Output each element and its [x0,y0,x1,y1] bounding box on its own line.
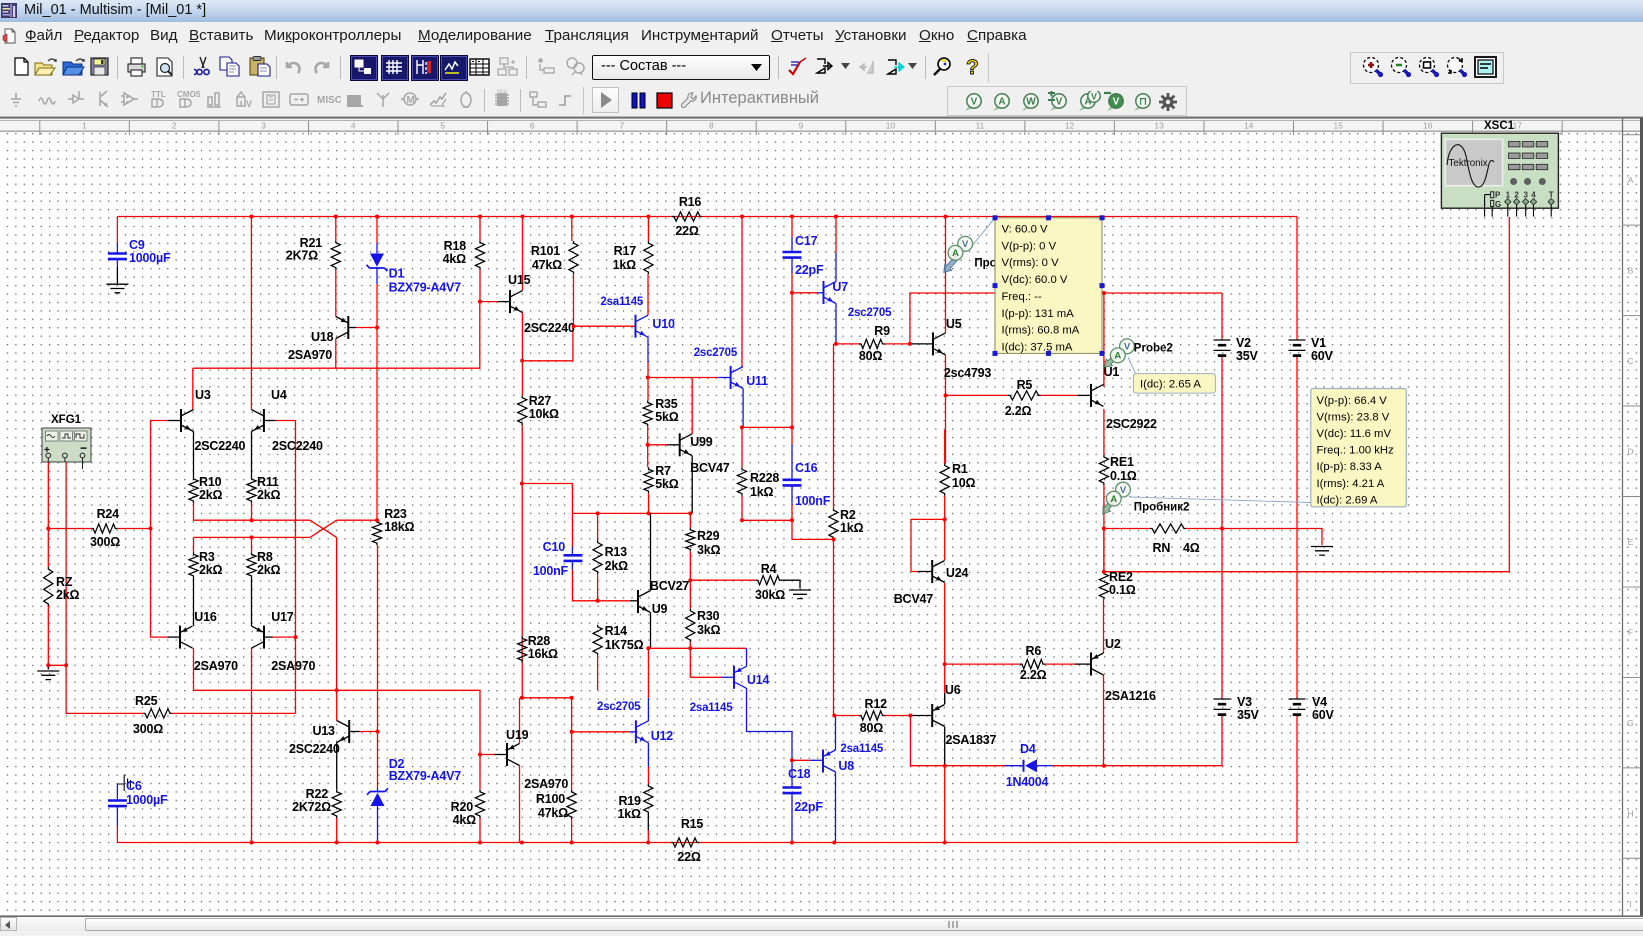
transistor U11 selected [730,366,732,389]
toolbar icon: cut [194,56,212,78]
svg-text:I(p-p): 8.33 A: I(p-p): 8.33 A [1317,461,1383,473]
svg-text:U24: U24 [946,566,969,580]
wire U8 base [792,759,810,761]
wire U16 collector [193,648,195,690]
wire C16 top [791,427,793,445]
toolbar icon: step [556,89,580,113]
wire U18 base [356,327,377,329]
wire U16 base black [168,636,181,638]
svg-text:RZ: RZ [56,575,73,589]
svg-text:3kΩ: 3kΩ [697,543,721,557]
capacitor C10 [564,555,583,561]
svg-text:2kΩ: 2kΩ [199,488,223,502]
svg-text:R9: R9 [874,324,890,338]
transistor U14 selected [733,666,735,689]
wire U18 collector down [335,339,337,369]
toolbar icon: view button [350,55,378,81]
toolbar icon: source group [10,89,34,113]
wire C16 top lead [791,445,793,480]
wire R6 to U2 base [1045,663,1075,665]
toolbar icon: RF group [373,89,397,113]
wire R27 bottom to node [521,425,523,636]
svg-text:Freq.: --: Freq.: -- [1002,291,1042,303]
wire R101 bottom [573,274,575,326]
transistor U24 [931,560,933,583]
resistor R100 [567,790,576,819]
resistor R15 [671,838,699,847]
svg-text:U5: U5 [946,317,962,331]
wire R9 node [836,343,859,345]
svg-text:R5: R5 [1017,378,1033,392]
toolbar icon: zoom out [1390,56,1412,80]
svg-text:22pF: 22pF [795,263,824,277]
svg-text:F: F [1628,627,1633,637]
svg-text:I(rms): 4.21 A: I(rms): 4.21 A [1317,478,1385,490]
svg-text:V: 60.0 V: V: 60.0 V [1002,224,1049,236]
wire U15 collector [522,217,524,291]
transistor U18 [347,316,349,339]
svg-text:0.1Ω: 0.1Ω [1110,469,1137,483]
svg-text:6: 6 [530,120,535,130]
wire C9 bottom lead [116,259,118,267]
svg-text:2kΩ: 2kΩ [257,563,281,577]
wire R17 top [647,217,649,242]
wire U5 base stub [910,343,933,345]
capacitor C17 [783,252,802,258]
wire D4 left lead [1005,765,1024,767]
wire diff pair line lower [194,536,311,538]
svg-text:9: 9 [799,120,804,130]
wire U1 emitter [1103,409,1105,455]
svg-text:C17: C17 [795,234,818,248]
transistor U9 [637,590,639,613]
resistor R28 [518,636,527,662]
svg-text:5: 5 [440,120,445,130]
svg-text:R101: R101 [531,244,560,258]
wire line y=690 [194,690,481,754]
svg-text:U9: U9 [652,602,668,616]
svg-text:2sa1145: 2sa1145 [840,743,884,755]
wire C17 bottom lead [791,258,793,273]
toolbar icon: save [90,57,110,77]
resistor R11 [247,477,256,503]
svg-text:2SA970: 2SA970 [194,659,238,673]
wire emitter node to R101 node [522,326,573,361]
svg-text:R24: R24 [97,507,120,521]
wire U8 base blue [810,759,823,761]
svg-text:10: 10 [886,120,896,130]
svg-text:BZX79-A4V7: BZX79-A4V7 [389,769,462,783]
svg-text:U2: U2 [1105,637,1121,651]
toolbar icon: find [931,56,955,78]
toolbar icon: hierarchy gray [497,57,519,77]
probe Пробник2 arrow on output node [1103,482,1311,514]
svg-text:C9: C9 [129,238,145,252]
svg-text:R12: R12 [865,697,888,711]
svg-text:4: 4 [1531,191,1536,200]
toolbar icon: misc group [317,89,341,113]
wire R19 bottom [647,814,649,830]
wire C9 drop [116,217,118,244]
svg-text:V2: V2 [1236,336,1251,350]
svg-text:R35: R35 [655,397,678,411]
svg-text:RE2: RE2 [1109,570,1133,584]
menu bar [0,22,1643,50]
wire U8 collector [835,716,837,751]
resistor R17 [644,241,653,274]
wire U4 base [276,421,296,638]
wire C10 top [571,513,573,547]
resistor R9 [859,339,885,348]
wire D1 top lead [376,243,378,253]
wire D1 top [376,217,378,244]
sheet border top strip [0,118,1643,131]
svg-text:60V: 60V [1312,708,1335,722]
svg-text:1: 1 [82,120,87,130]
wire U19 base [480,754,495,756]
resistor R1 [940,464,949,496]
wire C17 to U7 base [792,292,817,294]
toolbar icon: replace gray [563,56,589,78]
toolbar icon: export [815,56,839,78]
svg-text:10kΩ: 10kΩ [529,407,559,421]
wire XFG plus down [47,462,49,567]
wire R228 bottom [741,496,743,521]
toolbar icon: peripheral group [345,89,369,113]
toolbar icon: TTL group [148,89,172,113]
toolbar icon: open [34,57,58,77]
svg-text:100nF: 100nF [795,494,831,508]
svg-text:R27: R27 [529,394,552,408]
svg-text:U8: U8 [838,759,854,773]
toolbar icon: redo [313,58,333,76]
svg-text:2kΩ: 2kΩ [257,488,281,502]
capacitor C6 polarity mark [117,775,130,792]
wire U18 base stub [349,327,356,329]
svg-text:1kΩ: 1kΩ [613,258,637,272]
svg-text:V(rms): 23.8 V: V(rms): 23.8 V [1317,412,1390,424]
svg-text:15: 15 [1334,120,1344,130]
wire U19 emitter [519,766,521,843]
toolbar icon: dropdown arrow 2 [908,63,918,71]
wire R27 node branch [522,484,572,514]
svg-text:10Ω: 10Ω [952,476,976,490]
diode D4 [1023,760,1025,772]
svg-text:R228: R228 [750,471,779,485]
wire U1 collector [1103,293,1105,387]
wire U13 base [360,731,378,733]
svg-text:R30: R30 [697,609,720,623]
battery V3 [1214,699,1231,709]
svg-text:U14: U14 [747,673,770,687]
wire U7 emitter [835,304,837,344]
resistor R101 [569,241,578,274]
wire R12 node down [910,716,944,766]
wire RE1 bottom [1103,485,1105,572]
svg-text:2kΩ: 2kΩ [199,563,223,577]
svg-text:V: V [1120,485,1127,496]
svg-text:2SA970: 2SA970 [524,777,568,791]
svg-text:2SC2240: 2SC2240 [524,321,575,335]
toolbar icon: probe voltage reference [1103,91,1129,113]
wire D4 to V3 line [1053,715,1222,766]
toolbar icon: electromechanical group [400,89,424,113]
svg-text:2sc2705: 2sc2705 [848,307,892,319]
wire R29 top [689,513,691,527]
wire R30 bottom [689,642,691,677]
svg-text:2sa1145: 2sa1145 [600,296,644,308]
svg-text:47kΩ: 47kΩ [538,806,568,820]
zener diode D2 [367,788,388,794]
toolbar icon: probe settings gear [1157,91,1181,113]
svg-text:BCV27: BCV27 [650,579,690,593]
svg-text:1000µF: 1000µF [129,251,171,265]
transistor U7 selected [823,281,825,304]
svg-text:Freq.: 1.00 kHz: Freq.: 1.00 kHz [1317,445,1395,457]
wire U5 collector [945,217,947,333]
svg-text:5kΩ: 5kΩ [655,410,679,424]
wire X down to U13 [336,537,338,690]
resistor RE2 [1099,572,1108,600]
wire R25 line right [172,712,296,714]
wire U3 cascode line y=368 [193,302,480,369]
svg-text:2.2Ω: 2.2Ω [1020,668,1047,682]
svg-text:R19: R19 [618,794,641,808]
svg-text:3kΩ: 3kΩ [697,623,721,637]
svg-text:R14: R14 [605,624,628,638]
sheet border right column [1622,118,1624,916]
svg-text:2sc2705: 2sc2705 [694,347,738,359]
wire cross diag 2 [310,520,337,537]
resistor RE1 [1099,455,1108,485]
toolbar icon: power group [289,89,313,113]
resistor R3 [189,552,198,578]
wire U14 base [690,676,721,678]
wire R17 to U10 collector [647,274,649,315]
toolbar icon: interactive wrench [680,91,698,110]
svg-text:2SC2922: 2SC2922 [1106,417,1157,431]
wire R23 feed [337,519,377,521]
wire U17 base cont [295,637,297,713]
svg-text:2K7Ω: 2K7Ω [286,249,318,263]
wire output line y=765.7 [945,765,1005,767]
wire C6 top lead [116,797,118,801]
toolbar icon: copy [219,56,243,78]
svg-text:I(dc): 37.5 mA: I(dc): 37.5 mA [1002,341,1073,353]
transistor U13 [348,720,350,743]
svg-text:16: 16 [1423,120,1433,130]
svg-text:H: H [1627,808,1633,818]
wire U6 node to bus [944,766,946,843]
wire D1 to U18 base junction [376,284,378,520]
svg-text:R29: R29 [697,529,720,543]
svg-text:V(dc): 11.6 mV: V(dc): 11.6 mV [1317,428,1392,440]
wire C16 bottom red [791,505,793,520]
svg-text:A: A [1114,351,1121,362]
toolbar icon: forwardannotate [886,57,908,77]
wire C16 node down [792,520,834,539]
svg-text:300Ω: 300Ω [90,535,120,549]
svg-text:14: 14 [1244,120,1254,130]
wire U17 collector [251,648,253,842]
transistor U2 [1090,653,1092,676]
svg-text:R3: R3 [199,550,215,564]
toolbar icon: CMOS group [176,89,200,113]
probe Probe1 arrow on +60V rail [944,218,995,273]
svg-text:2SA970: 2SA970 [288,348,332,362]
wire RZ bottom [47,606,49,665]
svg-text:B: B [1628,266,1634,276]
capacitor C18 [783,788,802,794]
toolbar row 2 [0,85,1643,117]
wire U10 emitter [647,337,649,362]
zener diode D1 [367,265,388,271]
svg-text:U17: U17 [271,610,294,624]
svg-text:R11: R11 [257,475,279,489]
wire R5 to U1 base [1041,394,1079,396]
wire R228 top [741,427,743,467]
wire U14 base blue [722,676,735,678]
svg-text:V1: V1 [1311,336,1326,350]
svg-text:U3: U3 [195,388,211,402]
wire U19 collector [519,698,521,744]
svg-text:60V: 60V [1311,349,1334,363]
wire U15 emitter to R27 [521,313,523,396]
svg-text:2SA1216: 2SA1216 [1105,689,1156,703]
probe tooltip 2 [1311,389,1407,507]
toolbar icon: probe current [989,91,1015,113]
wire U3 base black [168,420,181,422]
transistor U6 [931,704,933,727]
toolbar icon: mcu group [205,89,229,113]
svg-text:22Ω: 22Ω [677,850,701,864]
ground RZ [37,671,59,680]
wire output to scope [1104,217,1509,572]
wire RZ gnd link [48,664,66,666]
wire U4 collector [250,217,252,410]
wire U12 emitter to R19 [647,767,649,784]
wire diff pair line upper [194,503,311,520]
wire U4 emitter [251,432,253,478]
wire U2 base stub [1075,663,1091,665]
resistor R2 [829,508,838,539]
svg-text:47kΩ: 47kΩ [532,258,562,272]
transistor U10 selected [635,315,637,338]
toolbar icon: zoom in [1362,56,1384,80]
wire U99 emitter down [691,456,693,514]
toolbar icon: pause button [630,92,648,110]
resistor R7 [644,467,653,493]
wire U3 collector [192,368,194,409]
wire U12 collector up [647,648,649,698]
transistor U99 [679,433,681,456]
toolbar icon: view button [381,55,409,81]
svg-text:V(rms): 0 V: V(rms): 0 V [1002,257,1060,269]
svg-text:R23: R23 [384,507,407,521]
transistor U17 [263,626,265,649]
svg-text:D1: D1 [389,267,405,281]
transistor U1 [1090,384,1092,407]
wire C18 bottom [791,793,793,842]
svg-text:D: D [1627,447,1633,457]
svg-text:U12: U12 [651,729,674,743]
svg-text:12: 12 [1065,120,1075,130]
svg-text:R20: R20 [451,800,474,814]
svg-text:100nF: 100nF [533,564,569,578]
resistor R14 [593,625,602,656]
wire U15 base stub [497,301,510,303]
capacitor C6 [108,801,127,807]
svg-text:R22: R22 [306,787,329,801]
wire R23 bottom to D2 [377,545,379,788]
capacitor C16 [783,480,802,486]
wire U9 base black [630,600,638,602]
wire R28 node right [522,698,572,790]
svg-text:R6: R6 [1026,644,1042,658]
wire gnd stub [47,665,49,669]
svg-text:+: + [44,445,50,456]
transistor U3 [180,409,182,432]
wire RN line [1104,528,1150,530]
wire U11 base line [648,377,718,379]
svg-text:BZX79-A4V7: BZX79-A4V7 [389,281,462,295]
svg-text:R4: R4 [761,562,777,576]
svg-text:C: C [1627,356,1633,366]
wire U2 emitter down [1103,675,1105,766]
ground R4 [789,590,811,599]
toolbar icon: undo [284,58,304,76]
svg-text:2SC2240: 2SC2240 [195,439,246,453]
wire U99 collector up [691,378,693,434]
svg-text:A: A [1110,494,1117,505]
resistor R16 [672,212,702,221]
resistor R18 [475,241,484,270]
svg-text:U18: U18 [311,330,334,344]
wire U14 emitter [747,688,793,788]
svg-text:2: 2 [172,120,177,130]
wire R5 line [946,394,1009,396]
svg-text:G: G [1627,718,1634,728]
toolbar icon: stop button [656,92,674,110]
wire U6 collector [944,693,946,704]
svg-text:U99: U99 [690,435,713,449]
wire U11 base blue [718,377,730,379]
combobox Состав [592,55,770,80]
probe Probe2 arrow on U1 collector [1104,339,1137,377]
wire U19 base black [495,754,508,756]
svg-text:D4: D4 [1020,742,1036,756]
toolbar icon: view button [440,55,468,81]
wire R20 bottom [479,818,481,843]
toolbar icon: backannotate gray [857,57,879,77]
wire U6 base stub [910,715,932,717]
svg-text:C10: C10 [543,540,566,554]
wire R22 bottom [336,818,338,843]
svg-text:R15: R15 [681,817,704,831]
wire C17 top lead [791,237,793,252]
svg-text:U19: U19 [506,728,529,742]
svg-text:R7: R7 [655,464,671,478]
wire U10 base [573,325,636,327]
svg-text:Про: Про [974,258,996,270]
svg-text:22pF: 22pF [794,800,823,814]
resistor R12 [859,711,885,720]
wire U12 base tap [571,731,573,733]
toolbar icon: view button [411,55,439,81]
toolbar icon: help [962,55,984,79]
wire R11 bottom [251,503,253,520]
svg-text:R17: R17 [614,244,637,258]
